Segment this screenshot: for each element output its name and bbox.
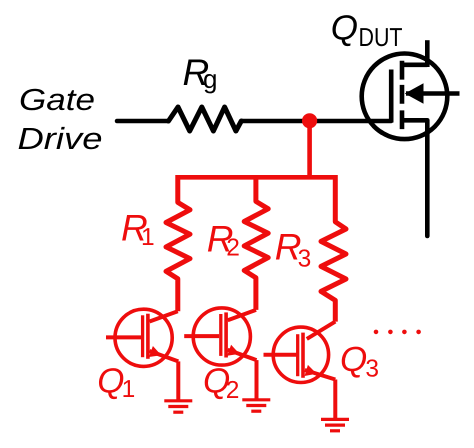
svg-text:Drive: Drive (18, 122, 103, 156)
resistor R2 (with leads from bus to Q2) (244, 175, 268, 310)
ground (under Q3) (321, 419, 349, 430)
svg-text:2: 2 (226, 377, 240, 404)
ground (under Q2) (242, 400, 270, 411)
resistor R1 (with leads from bus to Q1) (166, 175, 190, 311)
wire: gate drive to Rg (117, 119, 169, 124)
resistor R3 (with leads from bus to Q3) (321, 175, 346, 322)
svg-text:3: 3 (298, 246, 312, 273)
node: ellipsis dots (more parallel devices) (374, 330, 421, 335)
ground (under Q1) (164, 401, 192, 412)
svg-text:3: 3 (365, 356, 379, 383)
label R2 (207, 219, 240, 262)
svg-text:Q: Q (97, 361, 124, 400)
transistor Q_DUT (power MOSFET) (362, 40, 460, 236)
label Q2 (203, 361, 239, 404)
svg-text:2: 2 (226, 235, 240, 262)
transistor Q2 (IGBT symbol) (184, 308, 256, 399)
wire: junction down to bus (307, 122, 312, 177)
label Q_DUT (331, 8, 403, 52)
svg-text:1: 1 (141, 224, 155, 251)
svg-text:1: 1 (122, 376, 136, 403)
svg-text:DUT: DUT (359, 22, 403, 52)
transistor Q1 (IGBT symbol) (106, 309, 178, 400)
label Q1 (97, 361, 135, 403)
transistor Q3 (IGBT symbol) (264, 322, 336, 419)
svg-text:Q: Q (331, 8, 358, 47)
label Rg (183, 52, 218, 94)
label R1 (121, 208, 155, 252)
svg-text:Q: Q (340, 340, 367, 379)
node: gate net junction dot (302, 113, 317, 128)
svg-text:g: g (203, 64, 217, 94)
wire: parallel bus (178, 175, 335, 180)
wire: Rg to DUT gate (241, 119, 391, 124)
svg-text:Gate: Gate (19, 83, 95, 117)
label Q3 (340, 340, 379, 383)
label: Gate Drive (18, 83, 103, 156)
label R3 (275, 226, 311, 272)
resistor Rg (169, 107, 242, 131)
